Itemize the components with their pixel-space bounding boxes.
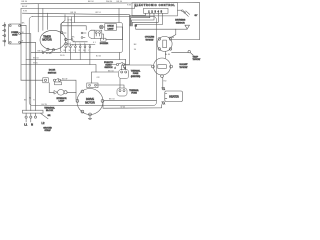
svg-text:ELECTRONIC CONTROL: ELECTRONIC CONTROL bbox=[135, 3, 176, 7]
wire risers from buses to timer bbox=[38, 4, 47, 32]
wires from control terminals (nested elbows) bbox=[130, 14, 163, 27]
buzzer coil bbox=[101, 38, 107, 41]
terminal block bbox=[23, 110, 49, 119]
power cord box bbox=[9, 24, 22, 44]
wire heater bottom to motor bbox=[103, 102, 162, 108]
svg-text:R: R bbox=[73, 50, 75, 52]
wire run C bbox=[22, 65, 96, 73]
svg-text:BK 34: BK 34 bbox=[22, 1, 28, 3]
svg-text:R: R bbox=[72, 45, 74, 47]
wire left drop to door switch bbox=[20, 9, 22, 81]
svg-text:HI-LIMIT: HI-LIMIT bbox=[179, 64, 188, 66]
svg-text:BK: BK bbox=[134, 44, 137, 46]
wire hi-limit to heater bbox=[162, 77, 164, 87]
wire motor top to push-to-start bbox=[92, 66, 126, 83]
drive motor bbox=[76, 89, 104, 116]
svg-text:BK 34: BK 34 bbox=[46, 53, 52, 55]
svg-text:TH'STAT: TH'STAT bbox=[193, 58, 202, 61]
svg-text:FUSE: FUSE bbox=[131, 93, 137, 95]
wire top bus 2 bbox=[21, 7, 137, 9]
svg-text:GY 88: GY 88 bbox=[169, 37, 176, 39]
svg-text:MOTOR: MOTOR bbox=[85, 100, 95, 104]
svg-text:OR 51: OR 51 bbox=[95, 12, 102, 14]
svg-text:34: 34 bbox=[134, 49, 137, 51]
svg-text:3: 3 bbox=[75, 43, 76, 45]
svg-text:SWITCH: SWITCH bbox=[105, 67, 113, 69]
svg-text:CYCLING: CYCLING bbox=[145, 37, 155, 39]
svg-text:AL 84: AL 84 bbox=[165, 53, 171, 56]
svg-text:STRAP: STRAP bbox=[44, 129, 51, 132]
svg-text:BK: BK bbox=[24, 99, 27, 101]
svg-text:6: 6 bbox=[84, 43, 85, 45]
svg-text:L1: L1 bbox=[24, 123, 27, 127]
svg-text:BUZZER: BUZZER bbox=[100, 43, 109, 45]
svg-text:BK: BK bbox=[72, 37, 75, 39]
svg-text:DRUM: DRUM bbox=[107, 26, 114, 28]
wire run B bbox=[26, 60, 126, 65]
junction dot bbox=[135, 25, 137, 27]
electronic control box bbox=[132, 3, 178, 16]
svg-text:MOTOR: MOTOR bbox=[42, 39, 51, 42]
push to start switch bbox=[116, 62, 124, 65]
svg-text:2: 2 bbox=[70, 43, 71, 45]
svg-text:12345: 12345 bbox=[148, 11, 163, 14]
wire bus3 into timer top bbox=[62, 15, 66, 32]
svg-text:DRYNESS: DRYNESS bbox=[175, 20, 186, 22]
wire cycling to right bus bbox=[172, 39, 200, 41]
svg-text:W: W bbox=[73, 41, 75, 43]
svg-text:HEATER: HEATER bbox=[169, 95, 179, 98]
svg-text:BK: BK bbox=[64, 50, 67, 52]
svg-text:LAMP: LAMP bbox=[59, 100, 65, 103]
hi-limit thermostat bbox=[152, 58, 173, 77]
timer bottom diagonals bbox=[44, 50, 53, 53]
svg-text:BK 34: BK 34 bbox=[33, 58, 39, 60]
wire control to sensor bbox=[178, 9, 182, 11]
wire W power cord to terminal block bbox=[20, 34, 30, 111]
thermal fuse bbox=[96, 79, 127, 97]
dryness sensor bbox=[176, 11, 190, 35]
wire colour labels bbox=[22, 1, 176, 108]
wire to interior lamp bbox=[49, 91, 76, 93]
svg-text:GY: GY bbox=[195, 15, 199, 17]
svg-text:4 1: 4 1 bbox=[93, 42, 97, 44]
power cord plug bbox=[2, 23, 5, 47]
svg-text:OR: OR bbox=[97, 77, 101, 79]
svg-text:5: 5 bbox=[80, 43, 81, 45]
motor switch box bbox=[87, 83, 98, 88]
svg-text:BK 34: BK 34 bbox=[117, 1, 123, 3]
interior lamp bbox=[54, 90, 67, 96]
svg-text:RD: RD bbox=[164, 81, 167, 83]
svg-text:W: W bbox=[29, 97, 31, 99]
timer contact row bbox=[65, 44, 91, 65]
wire R power cord to terminal block bbox=[20, 42, 35, 110]
svg-text:N: N bbox=[31, 123, 33, 127]
svg-text:BK 34: BK 34 bbox=[109, 99, 115, 101]
console drops right bbox=[119, 9, 123, 60]
svg-text:THERMAL: THERMAL bbox=[131, 70, 141, 73]
svg-text:BK: BK bbox=[22, 23, 25, 25]
drum light lamp bbox=[100, 25, 104, 29]
svg-text:BK 05: BK 05 bbox=[38, 50, 44, 52]
svg-text:START: START bbox=[105, 64, 112, 67]
svg-text:L2: L2 bbox=[42, 121, 45, 125]
svg-text:DOOR: DOOR bbox=[49, 70, 56, 72]
start/temp switch bbox=[81, 30, 102, 38]
svg-text:LIGHT: LIGHT bbox=[107, 28, 114, 30]
thermal fuse (heater) bbox=[119, 60, 152, 79]
svg-text:BLOCK: BLOCK bbox=[46, 110, 54, 112]
svg-text:R W: R W bbox=[23, 11, 27, 13]
svg-text:OR: OR bbox=[78, 50, 81, 52]
svg-text:BU: BU bbox=[83, 50, 86, 52]
wire console left drops bbox=[68, 17, 72, 47]
svg-text:W 05: W 05 bbox=[68, 19, 74, 21]
svg-text:SWITCH: SWITCH bbox=[48, 72, 57, 74]
svg-text:R W: R W bbox=[127, 4, 131, 6]
door switch bbox=[43, 78, 61, 83]
svg-text:BK 34: BK 34 bbox=[108, 70, 114, 72]
cabinet outline box bbox=[29, 17, 156, 106]
svg-text:BK 34: BK 34 bbox=[71, 12, 77, 14]
svg-text:BU W: BU W bbox=[42, 104, 47, 106]
svg-text:CORD: CORD bbox=[12, 35, 18, 37]
timer motor TM bbox=[40, 30, 67, 51]
wire cycling to hi-limit bbox=[164, 51, 166, 58]
wire door switch drop bbox=[48, 83, 50, 92]
svg-text:TH'STAT: TH'STAT bbox=[145, 38, 154, 41]
wire console top inner bbox=[62, 14, 86, 30]
svg-text:THERMAL: THERMAL bbox=[129, 89, 139, 92]
wire run A bbox=[31, 51, 61, 53]
wire bus3 to push-to-start bbox=[112, 25, 130, 65]
wires inside console bbox=[71, 27, 123, 44]
svg-text:SENSOR: SENSOR bbox=[176, 22, 185, 24]
svg-text:BK 34: BK 34 bbox=[88, 1, 94, 3]
svg-text:WH 34: WH 34 bbox=[106, 1, 113, 3]
belt switch box bbox=[55, 82, 62, 85]
svg-text:INTERIOR: INTERIOR bbox=[57, 98, 67, 100]
terminal stubs bbox=[26, 118, 31, 122]
svg-text:BU 65: BU 65 bbox=[96, 55, 101, 57]
svg-text:GR: GR bbox=[48, 115, 51, 117]
svg-text:TH'STAT: TH'STAT bbox=[179, 66, 188, 69]
timer right stubs bbox=[63, 33, 71, 44]
wire BK power cord to terminal block bbox=[20, 25, 26, 110]
console box bbox=[61, 23, 123, 53]
wire top bus 3 bbox=[22, 13, 129, 25]
heater bbox=[162, 87, 183, 104]
svg-text:TERMINAL: TERMINAL bbox=[44, 107, 55, 110]
svg-text:(HEATER): (HEATER) bbox=[131, 75, 141, 78]
wire top bus 1 bbox=[21, 2, 200, 39]
drum light box bbox=[105, 24, 117, 31]
svg-text:4: 4 bbox=[115, 68, 116, 70]
svg-text:BK W: BK W bbox=[22, 6, 27, 8]
wire motor to heater circuit along cabinet right bbox=[104, 99, 156, 101]
svg-text:R: R bbox=[33, 99, 35, 101]
svg-text:TEMP: TEMP bbox=[193, 56, 199, 58]
svg-text:W: W bbox=[22, 32, 24, 34]
wire junction to sensor run bbox=[136, 26, 188, 29]
wire to door switch bbox=[21, 80, 76, 99]
svg-text:W 05: W 05 bbox=[60, 55, 66, 57]
hi temp vent thermostat bbox=[188, 50, 190, 52]
svg-text:BU W: BU W bbox=[62, 78, 67, 80]
cycling thermostat bbox=[157, 35, 176, 52]
